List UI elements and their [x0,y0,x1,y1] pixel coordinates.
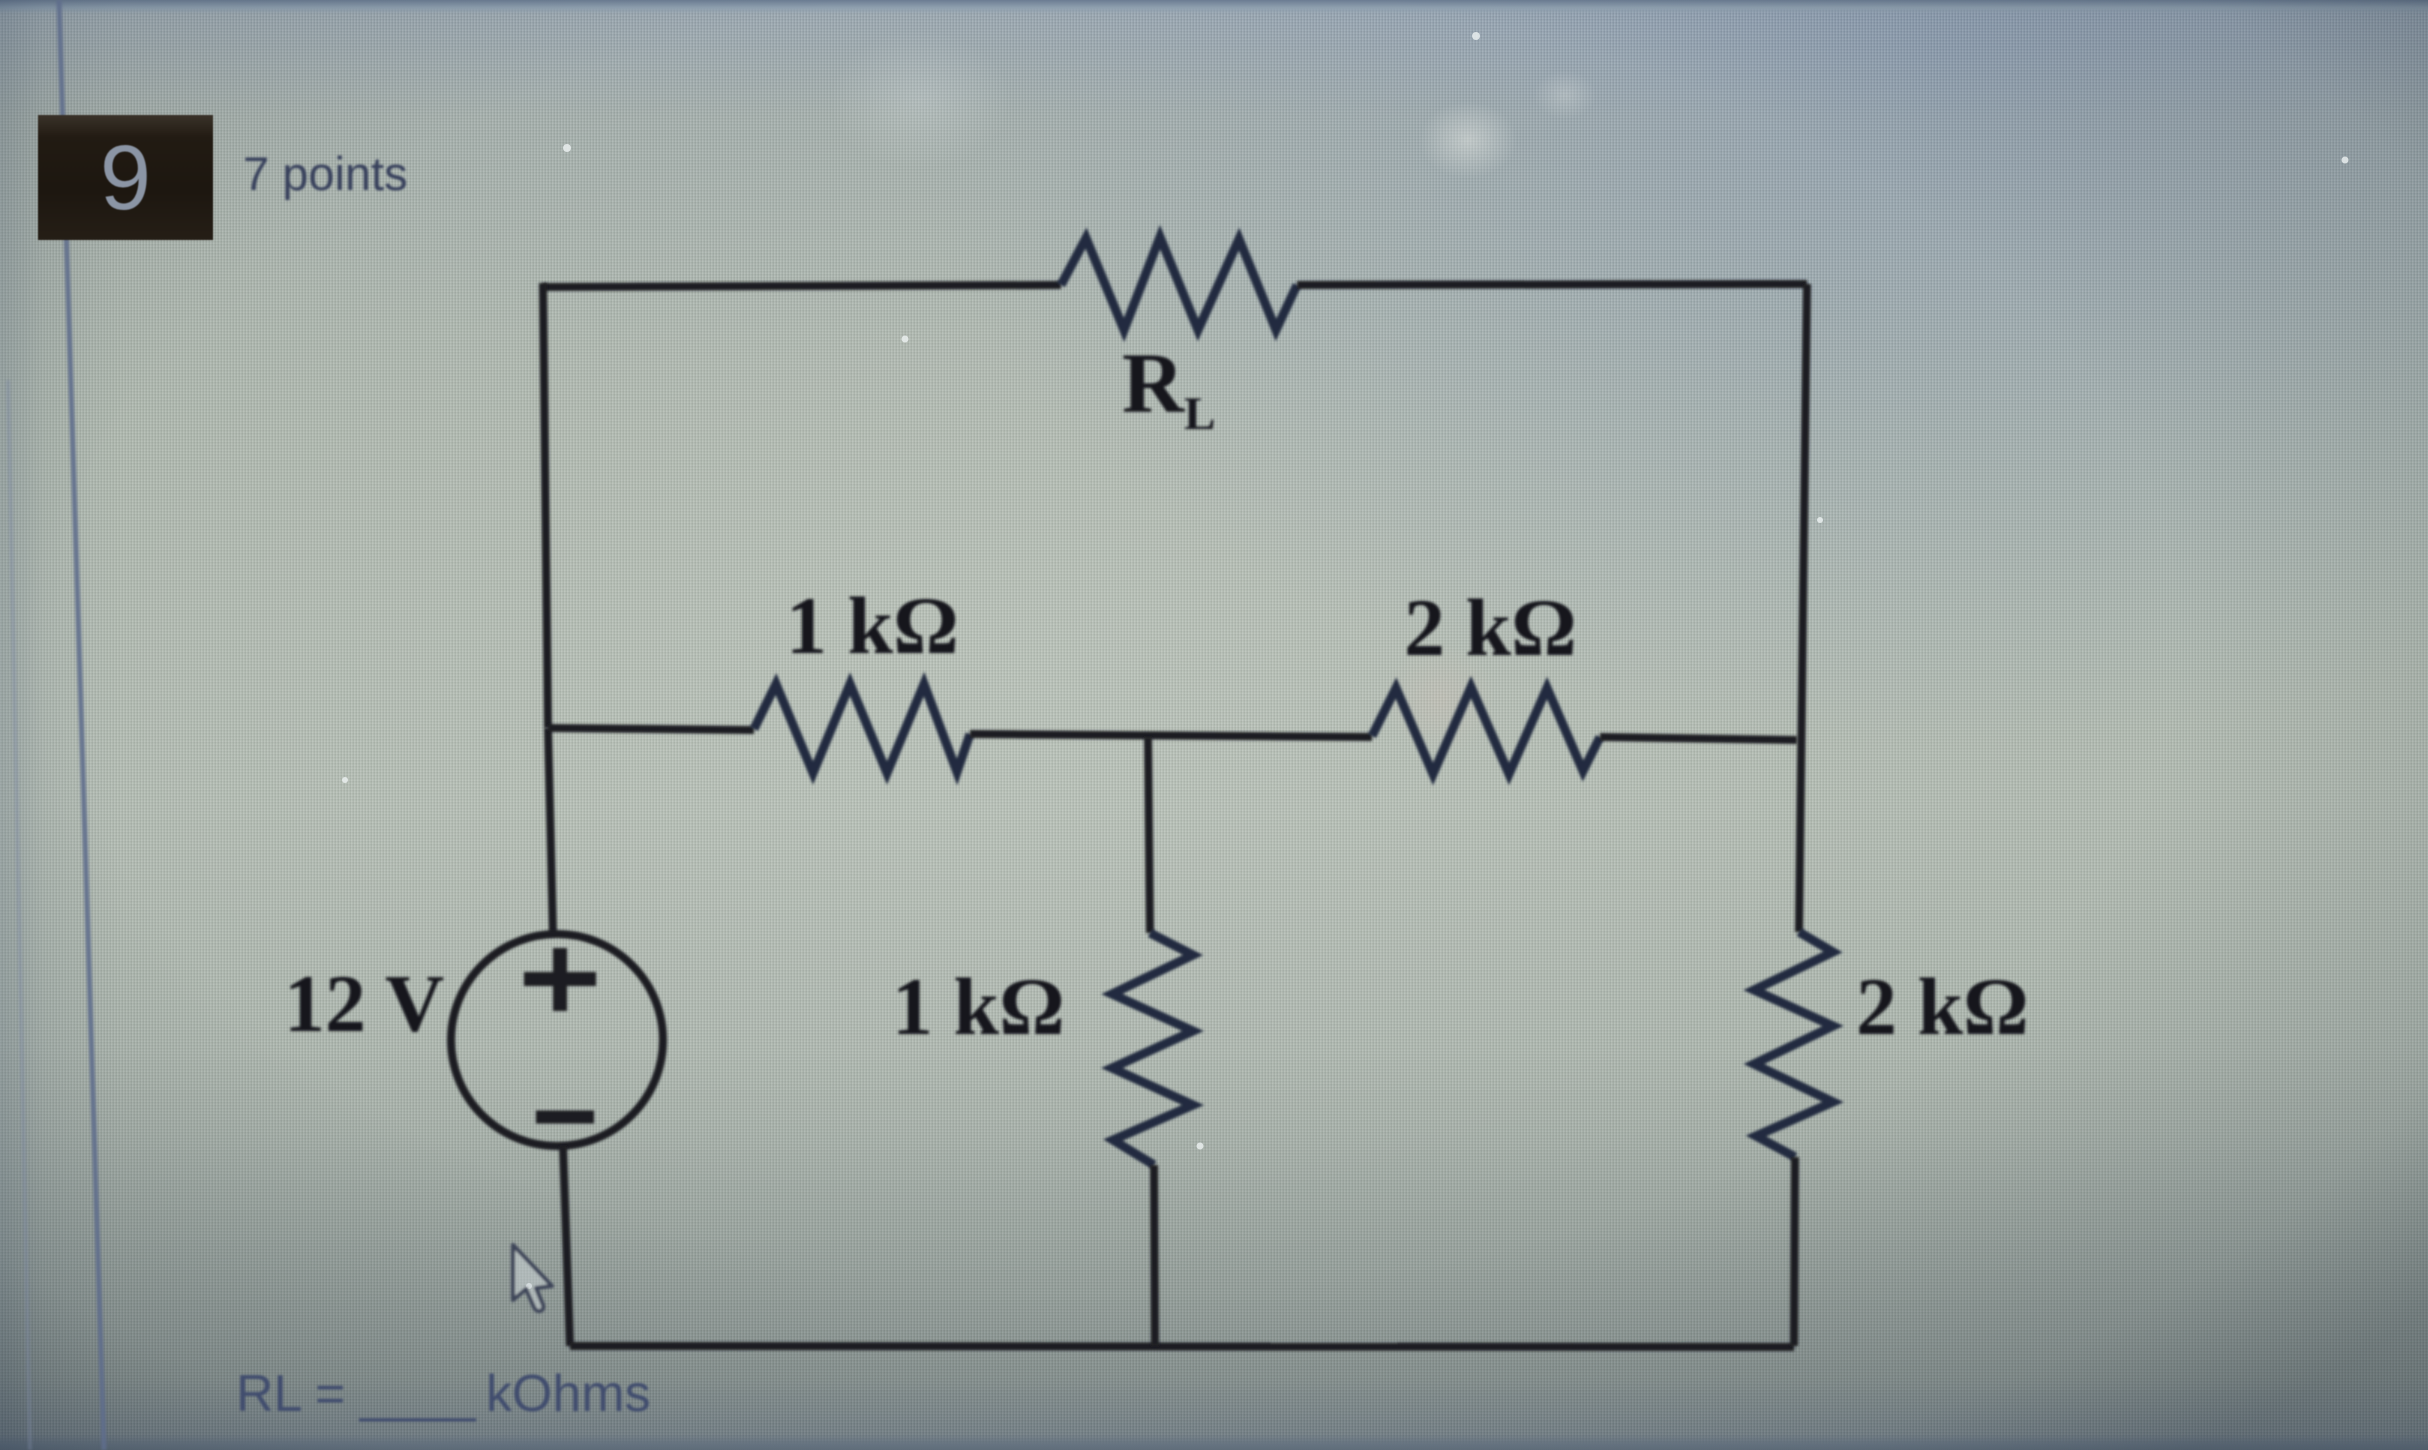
wire bottom [570,1346,1794,1347]
wire right side upper [1799,284,1807,932]
svg-text:1 kΩ: 1 kΩ [892,961,1065,1052]
answer blank RL = kOhms [236,1364,651,1424]
question number box [38,115,213,240]
svg-text:RL: RL [1122,335,1215,440]
wire middle vertical lower [1154,1165,1155,1346]
resistor RL top [1061,237,1297,330]
wire top left segment [543,285,1061,287]
svg-text:2 kΩ: 2 kΩ [1404,582,1577,673]
wire source to bottom corner [563,1146,570,1346]
wire middle center segment [970,734,1372,737]
wire middle left segment [548,728,754,730]
mouse cursor [513,1245,552,1311]
svg-text:2 kΩ: 2 kΩ [1856,961,2029,1052]
resistor 1k middle vertical [1112,933,1193,1165]
points label [243,146,408,201]
svg-text:12 V: 12 V [284,958,444,1049]
wire left to source [548,728,553,935]
wire middle node down [1148,737,1150,933]
wire middle right segment [1600,737,1797,740]
plus sign of source [524,948,596,1011]
svg-text:1 kΩ: 1 kΩ [786,580,959,671]
resistor 2k right vertical [1754,932,1833,1157]
sidebar vertical blue line [8,0,104,1450]
wire left side [543,283,548,728]
voltage source V1 [451,934,663,1146]
minus sign of source [536,1111,594,1124]
wire top right segment [1297,284,1807,285]
wire right side lower [1794,1157,1795,1346]
resistor 1k horizontal [754,684,970,773]
resistor 2k horizontal [1372,687,1600,774]
